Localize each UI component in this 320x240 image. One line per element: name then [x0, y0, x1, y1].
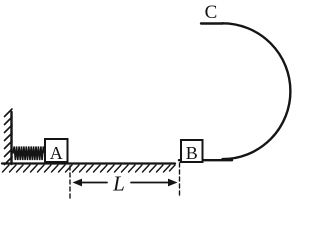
dashed line at B edge: [179, 163, 181, 198]
ledge line at C: [201, 22, 223, 24]
block A: [45, 139, 68, 163]
svg-text:C: C: [205, 2, 218, 23]
block B: [181, 140, 203, 163]
dashed line at A edge: [69, 166, 71, 198]
ground under B: [179, 159, 232, 161]
loop arc: [223, 23, 291, 159]
spring: [13, 147, 45, 161]
svg-text:B: B: [186, 143, 198, 163]
ground: [2, 164, 175, 173]
svg-text:A: A: [50, 143, 63, 163]
dimension arrow right: [131, 179, 178, 187]
dimension arrow left: [73, 179, 108, 187]
svg-text:L: L: [112, 172, 125, 196]
wall: [5, 109, 13, 165]
